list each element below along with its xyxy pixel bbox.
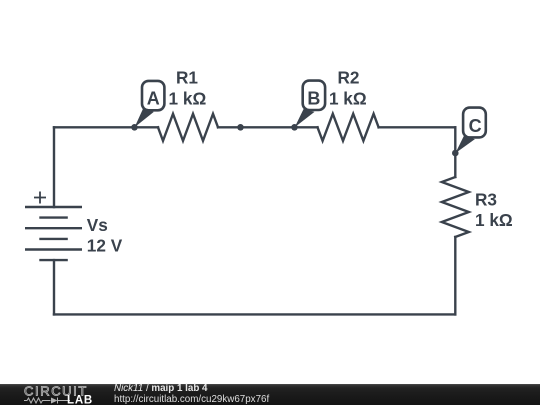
node A callout pointer [135, 109, 154, 127]
svg-text:1 kΩ: 1 kΩ [329, 88, 367, 108]
node B callout box [303, 81, 325, 110]
wire right vertical lower [454, 237, 456, 314]
wire right vertical upper (node C segment) [454, 127, 456, 177]
node C callout box [463, 108, 486, 138]
svg-text:R2: R2 [338, 68, 360, 88]
resistor R2 [318, 114, 379, 141]
node B junction dot [291, 124, 298, 131]
svg-text:C: C [469, 116, 482, 136]
svg-text:Vs: Vs [87, 215, 108, 235]
node B callout pointer [295, 109, 315, 127]
node A callout box [142, 81, 164, 110]
footer bar [0, 384, 540, 405]
node C junction dot [452, 150, 459, 157]
logo schematic line with resistor and diode [24, 398, 70, 404]
resistor R1 [158, 114, 218, 141]
wire bottom rail [54, 313, 455, 315]
wire R2 to top-right corner [379, 126, 456, 128]
wire between R1 and R2 [218, 126, 318, 128]
voltage source Vs battery plates [25, 207, 82, 260]
svg-text:12 V: 12 V [87, 236, 123, 256]
logo diode triangle [51, 398, 58, 404]
svg-text:A: A [147, 89, 160, 109]
junction dot between R1 and R2 [237, 124, 244, 131]
node C callout pointer [455, 136, 475, 153]
footer credit text [114, 382, 534, 384]
wire top-left horizontal (node A segment) [54, 126, 158, 128]
resistor R3 [442, 177, 469, 237]
battery plus sign [34, 192, 46, 204]
svg-text:R1: R1 [176, 68, 198, 88]
svg-text:R3: R3 [475, 190, 497, 210]
CircuitLab logo [0, 383, 100, 405]
svg-text:1 kΩ: 1 kΩ [475, 210, 513, 230]
svg-text:LAB: LAB [67, 395, 93, 405]
wire left vertical lower [53, 260, 55, 314]
node A junction dot [131, 124, 138, 131]
wire left vertical upper [53, 127, 55, 207]
svg-text:B: B [307, 89, 320, 109]
svg-text:1 kΩ: 1 kΩ [169, 88, 207, 108]
